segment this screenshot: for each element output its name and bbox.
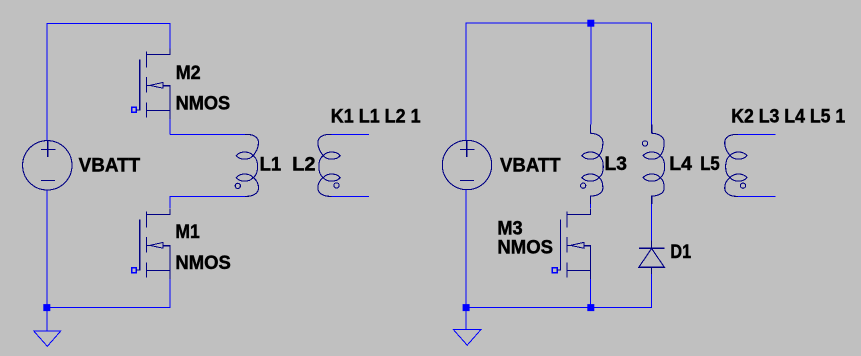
ground flag right: [454, 330, 481, 346]
wire down to M1 drain: [169, 196, 171, 208]
inductor L1: [235, 135, 258, 197]
wire M1 source down: [169, 279, 171, 309]
wire L4 bottom to D1: [651, 204, 653, 241]
svg-text:L2: L2: [292, 154, 315, 175]
nmos M3: [552, 209, 590, 280]
svg-text:K2 L3 L4 L5 1: K2 L3 L4 L5 1: [731, 107, 845, 128]
phase dot L4: [642, 141, 647, 146]
wire VBATT- down right: [465, 190, 467, 308]
wire bottom left: [47, 307, 171, 309]
wire top left: [47, 22, 171, 24]
svg-text:VBATT: VBATT: [500, 155, 561, 176]
junction node bottom M3 right: [587, 304, 594, 311]
svg-text:L5: L5: [700, 154, 720, 175]
ground flag left: [34, 331, 61, 347]
wire M2 source down: [169, 117, 171, 135]
phase dot L2: [334, 183, 339, 188]
junction node bottom VBATT right: [463, 304, 470, 311]
inductor L2: [318, 135, 340, 197]
wire VBATT+ up right: [465, 23, 467, 140]
svg-text:M1: M1: [175, 222, 200, 243]
wire to M2 drain: [169, 23, 171, 49]
svg-text:K1 L1 L2 1: K1 L1 L2 1: [331, 107, 421, 128]
svg-text:M2: M2: [176, 63, 201, 84]
phase dot L3: [581, 183, 586, 188]
wire junction to ground right: [465, 308, 467, 330]
inductor L3: [582, 125, 604, 205]
wire M3 source down: [590, 279, 592, 309]
junction node top right: [587, 20, 594, 27]
wire to L3 top: [590, 23, 592, 124]
voltage source V2 VBATT right: [442, 140, 491, 189]
wire VBATT+ up left: [46, 23, 48, 140]
wire L1 bottom pin to node: [170, 195, 245, 197]
svg-text:NMOS: NMOS: [497, 238, 553, 259]
wire to L4 top: [651, 23, 653, 124]
wire D1 to bottom: [651, 274, 653, 308]
nmos M2: [132, 49, 170, 120]
svg-text:NMOS: NMOS: [175, 253, 230, 274]
wire node to L1 top pin: [170, 134, 245, 136]
inductor L5: [725, 135, 747, 197]
wire junction to ground left: [46, 308, 48, 331]
wire VBATT- down left: [46, 190, 48, 308]
wire stub L5 top: [738, 134, 775, 136]
wire bottom right: [466, 307, 653, 309]
svg-text:D1: D1: [670, 242, 691, 263]
voltage source V1 VBATT left: [23, 141, 72, 190]
svg-text:L1: L1: [260, 154, 282, 175]
nmos M1: [132, 209, 170, 280]
inductor L4: [643, 125, 665, 205]
junction node bottom left: [43, 304, 50, 311]
svg-text:NMOS: NMOS: [176, 93, 231, 114]
diode D1: [639, 241, 664, 275]
svg-text:L4: L4: [669, 154, 692, 175]
wire top right: [466, 22, 652, 24]
svg-text:M3: M3: [497, 219, 522, 240]
wire stub L2 top: [331, 134, 369, 136]
wire L3 bottom to M3 drain: [590, 204, 592, 209]
svg-text:L3: L3: [605, 154, 627, 175]
phase dot L5: [740, 183, 745, 188]
wire stub L5 bottom: [738, 195, 775, 197]
svg-text:VBATT: VBATT: [79, 155, 141, 176]
wire stub L2 bottom: [331, 195, 369, 197]
